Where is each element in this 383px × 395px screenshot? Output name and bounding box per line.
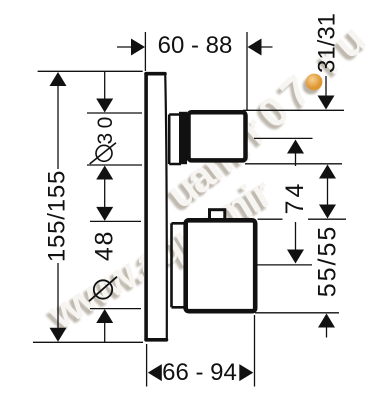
svg-text:31/31: 31/31 — [314, 13, 341, 73]
arrow 74 bottom — [287, 250, 304, 264]
arrow gap down — [319, 205, 336, 219]
arrow gap up — [319, 165, 336, 179]
L3 knob bottom ext — [245, 163, 342, 165]
svg-text:155/155: 155/155 — [44, 170, 71, 262]
L5 lower knob center ext — [258, 264, 313, 266]
arrow dia48 top — [96, 207, 113, 221]
plate left edge — [146, 74, 166, 340]
66-94 left ext — [146, 344, 148, 387]
60-88 left ext — [144, 32, 146, 71]
dia symbol for 48 — [89, 277, 117, 302]
BL bottom-left ext — [33, 341, 143, 343]
svg-text:55/55: 55/55 — [313, 225, 341, 298]
dia48 dim line segments — [104, 323, 106, 342]
55-55 arrow tail — [326, 328, 328, 338]
arrow 66-94 left — [148, 364, 162, 381]
svg-text:48: 48 — [90, 230, 118, 261]
top neck dark bar — [179, 112, 187, 164]
arrow 66-94 right — [239, 364, 253, 381]
L6 lower knob bottom ext — [255, 312, 339, 314]
arrow 60-88 right — [248, 39, 262, 56]
74 dim tails — [295, 154, 297, 251]
arrow dia30 bottom — [96, 166, 113, 180]
TL top-left ext — [38, 70, 143, 72]
plate silhouette — [144, 72, 168, 342]
66-94 right ext — [254, 315, 256, 387]
svg-text:60 - 88: 60 - 88 — [158, 32, 233, 59]
60-88 arrow tails — [117, 46, 273, 48]
top knob U1 — [189, 112, 246, 160]
svg-text:30: 30 — [94, 112, 117, 144]
L2 knob center ext — [254, 137, 313, 139]
arrow dia48 bottom — [96, 309, 113, 323]
top neck — [169, 115, 181, 165]
plate top edge — [146, 72, 165, 76]
arrow 60-88 left — [131, 39, 145, 56]
dimension extension lines — [33, 32, 346, 387]
lower sleeve — [172, 223, 186, 307]
neck bottom ext — [87, 164, 142, 166]
gap dim connector — [327, 179, 329, 205]
neck top ext — [87, 112, 142, 114]
lower knob tab — [210, 210, 225, 222]
watermark row 2 — [158, 10, 380, 217]
arrow 31-31 — [318, 96, 335, 110]
dia symbol for 30 — [90, 143, 116, 164]
L4 lower knob top ext — [258, 218, 347, 220]
L1 knob top ext — [243, 109, 344, 111]
arrow 55-55 — [318, 314, 335, 328]
arrow 74 top — [287, 140, 304, 154]
sleeve bottom ext — [90, 308, 141, 310]
lower knob — [186, 220, 256, 311]
arrows — [50, 39, 337, 382]
plate front face — [165, 73, 167, 339]
60-88 right ext — [246, 32, 248, 111]
plate bottom edge — [146, 338, 166, 342]
watermark row 1 — [40, 168, 280, 338]
arrow dia30 top — [96, 99, 113, 113]
31-31 dim line — [325, 76, 327, 96]
svg-text:66 - 94: 66 - 94 — [162, 359, 237, 386]
sleeve top ext — [90, 220, 141, 222]
dia30 dim line segments — [104, 71, 106, 207]
watermark orange dot — [306, 74, 323, 91]
155 dim line segments — [57, 86, 59, 328]
svg-text:74: 74 — [281, 181, 309, 215]
arrow 155 bottom — [50, 328, 67, 342]
arrow 155 top — [50, 72, 67, 86]
